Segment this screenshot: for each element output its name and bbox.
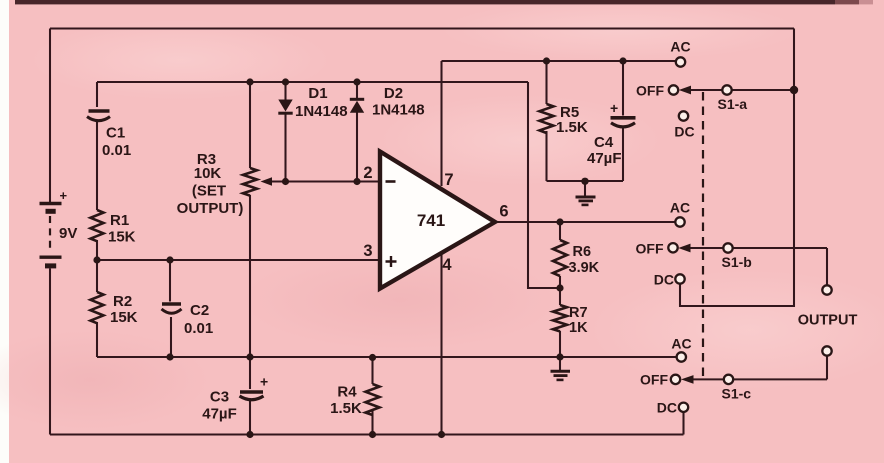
ground below R7: [551, 357, 571, 380]
svg-text:1K: 1K: [569, 320, 588, 336]
pin 6 label: [499, 203, 508, 221]
svg-text:R4: R4: [337, 384, 357, 401]
node: bottom/pin4: [438, 431, 445, 438]
svg-text:R7: R7: [569, 305, 588, 321]
resistor R2: [91, 292, 138, 326]
wire: C4 legs: [622, 61, 624, 181]
svg-text:47µF: 47µF: [202, 406, 237, 423]
node: rail3/C3: [246, 353, 253, 360]
svg-text:47µF: 47µF: [587, 150, 622, 167]
wire: C1/R1/R2 column: [96, 82, 98, 357]
pin 7 label: [444, 171, 453, 189]
potentiometer R3 10K (SET OUTPUT): [177, 151, 272, 217]
wire: S1-c DC stub to bottom rail: [682, 412, 684, 435]
svg-text:OFF: OFF: [636, 241, 664, 257]
svg-text:2: 2: [363, 164, 372, 182]
svg-text:C4: C4: [594, 134, 614, 151]
svg-text:3.9K: 3.9K: [569, 260, 600, 276]
svg-text:1.5K: 1.5K: [556, 119, 588, 136]
node: rail2/D1: [282, 78, 289, 85]
wire: pin 4 vertical: [440, 251, 442, 435]
wire: feedback drop to R6/R7 junction: [528, 82, 560, 288]
node: rail3/R7: [556, 353, 563, 360]
svg-text:C1: C1: [106, 125, 125, 142]
wire: C3 column: [249, 357, 251, 435]
wire: R4 legs: [371, 358, 373, 435]
svg-text:R1: R1: [110, 212, 129, 229]
svg-text:S1-b: S1-b: [722, 254, 752, 270]
svg-text:+: +: [610, 100, 618, 116]
svg-text:OFF: OFF: [636, 83, 664, 99]
switch S1-c: [640, 336, 751, 416]
svg-text:C2: C2: [190, 302, 209, 319]
pin 2 label: [363, 164, 372, 182]
svg-text:+: +: [60, 188, 68, 203]
node: V+ rail/C4: [619, 57, 626, 64]
wire: S1-c pole to output jack: [690, 355, 827, 379]
capacitor C1: [87, 111, 131, 159]
svg-text:15K: 15K: [108, 229, 136, 246]
pin 3 label: [363, 242, 372, 260]
svg-text:AC: AC: [670, 39, 690, 55]
svg-text:OUTPUT: OUTPUT: [798, 313, 858, 329]
wire: S1-a pole to right vertical: [687, 89, 794, 91]
switch S1-a: [636, 39, 747, 140]
svg-text:DC: DC: [674, 124, 694, 140]
wire: top rail from left column to right switch column: [50, 27, 794, 29]
node: right vertical/S1-a pole: [790, 86, 798, 94]
svg-text:DC: DC: [657, 400, 677, 416]
svg-text:7: 7: [444, 171, 453, 189]
wire: C2 column: [170, 260, 171, 357]
node: pin6/R6: [556, 218, 563, 225]
switch S1-b: [636, 200, 752, 288]
svg-text:AC: AC: [670, 200, 690, 216]
resistor R4 1.5K: [330, 384, 379, 418]
node: R6/R7 feedback: [556, 284, 563, 291]
svg-text:S1-a: S1-a: [718, 96, 748, 112]
wire: common rail (rail3): [97, 356, 677, 358]
wire: bottom rail: [50, 433, 684, 435]
svg-text:DC: DC: [654, 272, 674, 288]
wire: feedback rail (rail2): [97, 81, 528, 83]
node: pin3/C2: [166, 256, 173, 263]
wire: R3 column: [249, 82, 251, 357]
svg-text:S1-c: S1-c: [722, 386, 752, 402]
pin 4 label: [442, 256, 452, 274]
wire: right vertical with S1-b DC return: [680, 29, 794, 307]
wire: left vertical battery to bottom rail: [49, 269, 51, 435]
diode D2 1N4148: [350, 85, 425, 119]
ground below C4: [576, 181, 596, 205]
svg-text:1N4148: 1N4148: [372, 102, 425, 119]
svg-text:9V: 9V: [59, 225, 77, 242]
capacitor C2: [162, 302, 214, 337]
wire: R5 legs: [545, 61, 547, 181]
node: rail3/C2: [166, 353, 173, 360]
wire: R5/C4 bottom tie: [547, 180, 624, 182]
node: rail3/R4: [369, 354, 376, 361]
svg-text:AC: AC: [671, 336, 691, 352]
svg-text:3: 3: [363, 242, 372, 260]
wire: R6/R7 column: [559, 222, 561, 357]
wire: pin 6 output rail: [494, 221, 676, 223]
resistor R5 1.5K: [540, 104, 588, 136]
wire: left vertical battery feed (top): [49, 29, 51, 203]
wire: D1 legs: [284, 82, 286, 182]
svg-text:15K: 15K: [110, 309, 138, 326]
wire: D2 legs: [356, 82, 358, 182]
svg-text:10K: 10K: [194, 165, 222, 182]
diode D1 1N4148: [278, 85, 347, 120]
wire: non-inverting input rail (pin 3): [97, 259, 380, 261]
svg-text:D2: D2: [384, 85, 403, 102]
svg-text:1.5K: 1.5K: [330, 400, 362, 417]
svg-text:741: 741: [417, 211, 445, 230]
svg-text:OUTPUT): OUTPUT): [177, 200, 244, 217]
svg-text:R6: R6: [573, 244, 592, 260]
svg-text:0.01: 0.01: [184, 320, 213, 337]
svg-text:D1: D1: [308, 85, 327, 102]
resistor R7 1K: [553, 305, 588, 336]
node: bottom/R4: [369, 431, 376, 438]
svg-text:R2: R2: [113, 293, 132, 310]
op-amp U1 741: [380, 152, 495, 289]
svg-text:4: 4: [442, 256, 452, 274]
capacitor C3 47uF: [202, 374, 268, 423]
wire: V+ rail to S1-a AC: [442, 60, 677, 62]
resistor R6 3.9K: [553, 240, 600, 276]
svg-text:1N4148: 1N4148: [295, 103, 348, 120]
svg-text:C3: C3: [210, 389, 229, 406]
capacitor C4 47uF: [587, 100, 636, 167]
wire: S1-b pole to output jack: [686, 248, 827, 286]
node: rail2/D2: [353, 78, 360, 85]
svg-text:+: +: [260, 374, 268, 390]
node: rail2/R3: [246, 78, 253, 85]
top dark border bar: [15, 0, 873, 4]
wire: R3 wiper to pin 2: [269, 180, 380, 182]
svg-text:(SET: (SET: [192, 183, 226, 200]
node: V+ rail/R5: [543, 57, 550, 64]
svg-text:0.01: 0.01: [102, 142, 131, 159]
battery B1 9V: [40, 188, 78, 266]
resistor R1: [91, 210, 136, 246]
node: C4 ground tap: [581, 178, 588, 185]
dashed switch gang linkage: [702, 92, 704, 380]
node: wiper/D2: [353, 178, 360, 185]
svg-text:OFF: OFF: [640, 372, 668, 388]
node: R1/R2 pin3: [93, 256, 100, 263]
output jack terminals: [798, 285, 858, 355]
svg-text:6: 6: [499, 203, 508, 221]
node: bottom/C3: [246, 431, 253, 438]
wire: pin 7 vertical: [440, 61, 442, 186]
node: wiper/D1: [282, 178, 289, 185]
